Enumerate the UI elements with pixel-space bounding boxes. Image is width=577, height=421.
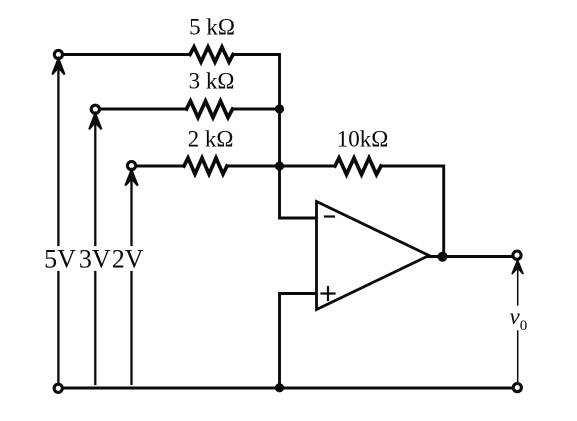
- arrow: 3V source arrowhead: [89, 113, 101, 129]
- svg-text:3V: 3V: [79, 245, 111, 274]
- svg-text:10kΩ: 10kΩ: [337, 127, 389, 152]
- wire: 5V source lead upper segment: [57, 69, 59, 245]
- wire: 3V source lead upper segment: [94, 124, 96, 245]
- junction dot: 3k node: [275, 104, 284, 113]
- wire: 3V row from terminal to 3k resistor: [100, 108, 187, 111]
- svg-text:5V: 5V: [44, 245, 76, 274]
- wire: v0 sense lead upper segment: [517, 268, 519, 305]
- resistor R1 5 kOhm zigzag: [190, 47, 233, 62]
- arrow: v0 polarity arrowhead: [512, 260, 523, 274]
- wire: 2k resistor to summing node: [227, 165, 280, 168]
- wire: 2V source lead lower segment: [130, 272, 132, 384]
- svg-text:2 kΩ: 2 kΩ: [188, 127, 234, 152]
- arrow: 5V source arrowhead: [52, 59, 64, 75]
- junction dot: ground node: [275, 383, 284, 392]
- bottom rail wire (ground/common): [63, 387, 513, 390]
- svg-text:5 kΩ: 5 kΩ: [189, 15, 235, 40]
- resistor R3 2 kOhm zigzag: [184, 158, 227, 174]
- terminal node: bottom left (open circle): [54, 384, 62, 392]
- junction dot: summing node: [275, 161, 284, 170]
- wire: 3V source lead lower segment: [94, 272, 96, 384]
- wire: 5k resistor to summing column, corner down: [233, 55, 280, 110]
- wire: 2V row from terminal to 2k resistor: [136, 165, 184, 168]
- op-amp noninverting input plus sign: [322, 287, 335, 300]
- wire: op-amp output to output terminal: [429, 255, 513, 258]
- wire: 3k resistor to junction: [233, 108, 280, 111]
- terminal node: output top (open circle): [513, 251, 521, 259]
- terminal node: 5V source top (open circle): [54, 50, 62, 58]
- terminal node: 2V source top (open circle): [127, 162, 135, 170]
- wire: 5V row from terminal to 5k resistor: [63, 53, 191, 56]
- wire: v0 sense lead lower segment: [517, 331, 519, 382]
- wire: 5V source lead lower segment: [57, 272, 59, 384]
- wire: feedback right corner down to output node: [381, 166, 444, 257]
- op-amp U1 triangle: [317, 202, 430, 310]
- terminal node: output bottom (open circle): [513, 384, 521, 392]
- wire: 2V source lead upper segment: [130, 180, 132, 245]
- wire: noninverting input to ground rail: [280, 294, 317, 386]
- svg-text:3 kΩ: 3 kΩ: [189, 69, 235, 94]
- junction dot: output/feedback node: [438, 252, 448, 262]
- arrow: 2V source arrowhead: [125, 170, 137, 186]
- wire: column from 3k node to summing node: [278, 109, 281, 166]
- resistor R2 3 kOhm zigzag: [187, 101, 233, 118]
- wire: feedback from summing node to 10k resistor: [280, 165, 336, 168]
- op-amp inverting input minus sign: [325, 215, 334, 217]
- terminal node: 3V source top (open circle): [91, 105, 99, 113]
- resistor R4 10kOhm zigzag: [335, 158, 381, 175]
- wire: summing node down and right to inverting input: [280, 166, 317, 218]
- svg-text:2V: 2V: [112, 245, 144, 274]
- svg-text:v0: v0: [510, 304, 528, 334]
